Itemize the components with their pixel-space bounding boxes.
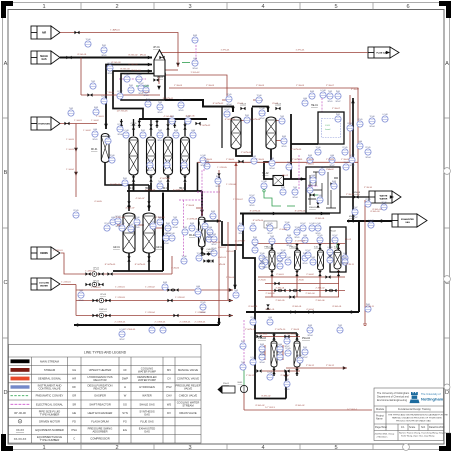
svg-text:PSA-01: PSA-01	[306, 163, 314, 166]
svg-text:WATER PUMP: WATER PUMP	[138, 369, 156, 373]
svg-text:FI-03: FI-03	[308, 325, 312, 327]
instrument tags	[69, 35, 388, 391]
svg-text:1"-DW-01: 1"-DW-01	[85, 271, 95, 273]
svg-text:SP-04: SP-04	[270, 168, 275, 170]
svg-text:TYPE-NUMBER: TYPE-NUMBER	[40, 438, 60, 442]
svg-text:CHV-02: CHV-02	[206, 260, 214, 262]
red stream lines	[60, 33, 372, 411]
svg-text:DEMIN: DEMIN	[40, 253, 48, 255]
svg-text:XX-XX-XX: XX-XX-XX	[14, 437, 27, 441]
svg-text:REACTOR: REACTOR	[93, 378, 106, 382]
shift feed jumper	[252, 107, 268, 113]
svg-text:LI-04: LI-04	[205, 161, 209, 163]
svg-text:8"-EG-01: 8"-EG-01	[248, 306, 258, 308]
svg-text:TC-06: TC-06	[285, 336, 290, 338]
shift reactor SR-01	[231, 117, 241, 149]
svg-text:TC-06: TC-06	[295, 227, 300, 229]
svg-text:4"-SYN-03: 4"-SYN-03	[173, 190, 184, 192]
svg-text:FC-07: FC-07	[298, 355, 303, 357]
svg-text:8"-EG-02: 8"-EG-02	[255, 405, 265, 407]
svg-text:8"-SYN-01: 8"-SYN-01	[163, 98, 174, 100]
svg-text:2"-W-12: 2"-W-12	[306, 365, 315, 367]
svg-text:TC-06: TC-06	[370, 116, 375, 118]
svg-text:FD-02: FD-02	[330, 231, 337, 233]
svg-text:A: A	[4, 61, 8, 67]
upper psa drops	[272, 270, 339, 277]
svg-text:SP-07: SP-07	[303, 357, 308, 359]
svg-text:MV-09: MV-09	[349, 216, 356, 218]
svg-text:PI-01: PI-01	[285, 379, 289, 381]
svg-text:3: 3	[188, 4, 191, 10]
svg-text:HR-03: HR-03	[162, 188, 169, 190]
reactor HR-04	[181, 137, 190, 175]
svg-text:SP-01: SP-01	[179, 110, 184, 112]
svg-text:HE-01: HE-01	[311, 104, 318, 107]
svg-text:LI-04: LI-04	[330, 155, 334, 157]
compressor label box	[264, 221, 277, 228]
svg-text:PI-01: PI-01	[303, 253, 307, 255]
svg-text:PC-05: PC-05	[104, 223, 109, 225]
svg-text:SP-04: SP-04	[193, 68, 198, 70]
svg-text:1"-W-01: 1"-W-01	[106, 92, 115, 94]
svg-text:5: 5	[334, 4, 337, 10]
svg-text:FI-03: FI-03	[174, 130, 178, 132]
svg-text:2"-EG-06: 2"-EG-06	[315, 300, 325, 302]
svg-text:4"-SG-07: 4"-SG-07	[125, 208, 135, 210]
HE vertical line	[352, 98, 354, 221]
svg-text:LC-08: LC-08	[120, 223, 125, 225]
svg-text:Level: Level	[325, 129, 331, 131]
svg-text:TC-06: TC-06	[197, 253, 202, 255]
svg-text:FI-03: FI-03	[260, 344, 264, 346]
svg-text:FC-07: FC-07	[348, 123, 353, 125]
svg-text:GASIFER: GASIFER	[94, 394, 106, 398]
svg-text:TC-06: TC-06	[135, 217, 140, 219]
svg-text:WASTE: WASTE	[380, 195, 388, 198]
svg-text:LC-08: LC-08	[151, 221, 156, 223]
svg-text:FC-07: FC-07	[306, 250, 311, 252]
svg-text:2 Members: 2 Members	[377, 436, 389, 439]
svg-text:FLASH DRUM: FLASH DRUM	[91, 420, 109, 424]
svg-text:TC-06: TC-06	[137, 74, 142, 76]
svg-text:TI-02: TI-02	[280, 116, 284, 118]
svg-text:MV-01: MV-01	[140, 55, 147, 57]
svg-text:1"-W-05: 1"-W-05	[341, 159, 350, 161]
lower bank riser	[285, 371, 287, 399]
svg-text:GAS: GAS	[405, 221, 410, 224]
reactor riser R2	[150, 119, 152, 136]
svg-text:1"-W-02: 1"-W-02	[142, 92, 151, 94]
svg-text:2019/20 MDL Group: 2019/20 MDL Group	[375, 433, 396, 436]
svg-text:TI-02: TI-02	[338, 325, 342, 327]
svg-text:TI-02: TI-02	[183, 227, 187, 229]
svg-text:WATER PUMP: WATER PUMP	[138, 378, 156, 382]
svg-text:PC-05: PC-05	[250, 317, 255, 319]
svg-text:8"-SG-03: 8"-SG-03	[128, 64, 138, 66]
svg-text:2"-SYN-08: 2"-SYN-08	[187, 219, 198, 221]
svg-text:SP-07: SP-07	[216, 186, 221, 188]
pneumatic signal lines (green)	[136, 63, 337, 386]
svg-text:COOLING: COOLING	[39, 283, 50, 285]
svg-text:1"-W-12: 1"-W-12	[246, 375, 255, 377]
svg-text:HEAT EXCHANGER: HEAT EXCHANGER	[88, 411, 113, 415]
svg-text:LI-04: LI-04	[196, 286, 200, 288]
binder holes	[444, 168, 451, 175]
svg-text:1"-CW-02: 1"-CW-02	[175, 297, 185, 299]
svg-text:SP-04: SP-04	[173, 227, 178, 229]
flash outlet riser	[222, 221, 243, 245]
svg-text:PC-05: PC-05	[73, 210, 78, 212]
svg-text:SP-01: SP-01	[79, 300, 84, 302]
svg-text:1"-W-03: 1"-W-03	[206, 85, 215, 87]
svg-text:6: 6	[406, 4, 409, 10]
svg-text:TC-06: TC-06	[316, 147, 321, 149]
svg-text:TI-02: TI-02	[158, 181, 162, 183]
svg-text:LI-04: LI-04	[278, 344, 282, 346]
svg-text:LI-04: LI-04	[251, 223, 255, 225]
svg-text:FC-07: FC-07	[250, 195, 255, 197]
svg-text:FI-03: FI-03	[239, 223, 243, 225]
svg-text:FI-03: FI-03	[163, 282, 167, 284]
svg-text:2"-EG-04: 2"-EG-04	[305, 293, 315, 295]
svg-text:PI-01: PI-01	[336, 114, 340, 116]
svg-text:8"-SYN-05: 8"-SYN-05	[105, 264, 116, 266]
legend swatches	[11, 359, 30, 440]
EG main line	[246, 311, 359, 313]
svg-text:SP-04: SP-04	[293, 197, 298, 199]
svg-text:SP-04: SP-04	[201, 165, 206, 167]
svg-text:DWP: DWP	[122, 377, 128, 381]
svg-text:TI-02: TI-02	[79, 290, 83, 292]
svg-text:3: 3	[188, 445, 191, 451]
svg-text:4"-SG-07: 4"-SG-07	[135, 198, 145, 200]
waste vertical	[358, 221, 360, 312]
svg-text:4"-SG-08: 4"-SG-08	[115, 217, 125, 219]
EXHAUSTED GAS feed/outlet arrow	[392, 214, 427, 227]
reactor drop R3	[167, 175, 169, 183]
svg-text:GR-02: GR-02	[156, 247, 163, 249]
svg-text:2"-W-10: 2"-W-10	[346, 194, 355, 196]
svg-text:8"-SG-04: 8"-SG-04	[120, 68, 130, 70]
svg-text:FC-07: FC-07	[350, 155, 355, 157]
svg-text:SP-01: SP-01	[263, 267, 268, 269]
svg-text:TI-02: TI-02	[311, 257, 315, 259]
svg-text:FC-07: FC-07	[225, 109, 230, 111]
svg-text:FC-07: FC-07	[118, 91, 123, 93]
svg-text:1"-H-03: 1"-H-03	[66, 139, 74, 141]
SHALE GAS feed/outlet arrow	[31, 51, 60, 64]
svg-text:1"-W-05: 1"-W-05	[204, 159, 213, 161]
svg-text:UH-01: UH-01	[153, 47, 160, 49]
reactor feed header	[139, 118, 207, 120]
svg-text:FD: FD	[72, 420, 76, 424]
motor M-01	[240, 385, 247, 392]
shift bypass stub	[221, 107, 223, 148]
svg-text:8"-EG-01: 8"-EG-01	[265, 309, 275, 311]
svg-text:PI-01: PI-01	[207, 234, 211, 236]
svg-text:TI-02: TI-02	[212, 234, 216, 236]
svg-text:MV-08: MV-08	[354, 192, 361, 194]
svg-text:M-01: M-01	[238, 382, 244, 384]
svg-text:2"-W-07: 2"-W-07	[332, 108, 341, 110]
svg-text:SR: SR	[72, 402, 76, 406]
svg-text:CF: CF	[123, 368, 127, 372]
svg-text:FC-07: FC-07	[118, 124, 123, 126]
condensate return header	[74, 318, 219, 325]
desulfurization reactor DF-01	[101, 134, 109, 163]
svg-text:SP-01: SP-01	[250, 205, 255, 207]
reactor drop R4	[184, 175, 186, 183]
svg-text:1"-CW-03: 1"-CW-03	[195, 312, 205, 314]
svg-text:4"-SG-09: 4"-SG-09	[155, 217, 165, 219]
svg-text:LC-08: LC-08	[124, 130, 129, 132]
svg-text:1"-H-04: 1"-H-04	[66, 169, 74, 171]
svg-text:The University of: The University of	[421, 392, 441, 396]
svg-text:PSA-01: PSA-01	[264, 246, 272, 249]
equipment labels	[93, 77, 361, 385]
svg-text:1"-CW-03: 1"-CW-03	[115, 297, 125, 299]
svg-text:1"-W-03: 1"-W-03	[174, 85, 183, 87]
svg-text:8"-SG-04: 8"-SG-04	[131, 70, 141, 72]
svg-text:1"-W-06: 1"-W-06	[226, 277, 235, 279]
svg-text:SP-07: SP-07	[260, 118, 265, 120]
svg-text:2"-EG-05: 2"-EG-05	[275, 300, 285, 302]
svg-text:PI-01: PI-01	[141, 130, 145, 132]
svg-text:8"-SG-01: 8"-SG-01	[77, 54, 87, 56]
svg-text:CONTROL VALVE: CONTROL VALVE	[38, 387, 60, 391]
svg-text:MANUAL VALVE: MANUAL VALVE	[178, 368, 198, 372]
red up arrow	[234, 162, 237, 166]
svg-text:LC-08: LC-08	[170, 233, 175, 235]
svg-text:SP-01: SP-01	[282, 146, 287, 148]
svg-text:LC-08: LC-08	[102, 96, 107, 98]
svg-text:SP-04: SP-04	[328, 257, 333, 259]
svg-text:FC-07: FC-07	[333, 235, 338, 237]
svg-text:Module: Module	[376, 408, 385, 411]
PSA column 1	[269, 250, 275, 270]
svg-text:PC-05: PC-05	[365, 199, 370, 201]
svg-text:PC-05: PC-05	[262, 257, 267, 259]
svg-text:PSA-03: PSA-03	[258, 337, 267, 340]
svg-text:4"-SYN-02: 4"-SYN-02	[200, 125, 211, 127]
svg-text:TI-02: TI-02	[158, 102, 162, 104]
svg-text:LI-04: LI-04	[260, 261, 264, 263]
svg-text:LI-04: LI-04	[268, 317, 272, 319]
svg-text:1C"-W-13: 1C"-W-13	[265, 407, 275, 409]
svg-text:2"-SYN-07: 2"-SYN-07	[295, 240, 306, 242]
reactor HR-02	[147, 137, 156, 175]
svg-text:2"-W-10: 2"-W-10	[364, 187, 373, 189]
svg-text:PI-01: PI-01	[166, 223, 170, 225]
svg-text:1"-H-02: 1"-H-02	[91, 120, 99, 122]
flow arrowheads	[74, 51, 394, 377]
svg-text:1"-CW-05: 1"-CW-05	[217, 167, 227, 169]
svg-text:SP-07: SP-07	[212, 244, 217, 246]
left spine	[243, 214, 255, 313]
svg-text:1"-CW-02: 1"-CW-02	[145, 287, 155, 289]
svg-text:SP-07: SP-07	[120, 339, 125, 341]
svg-text:SP-07: SP-07	[350, 165, 355, 167]
svg-text:EG: EG	[123, 428, 127, 432]
svg-text:LC-08: LC-08	[286, 257, 291, 259]
svg-text:PRODUCTION FROM SHALE GAS: PRODUCTION FROM SHALE GAS	[396, 420, 431, 423]
svg-text:PC-05: PC-05	[267, 223, 272, 225]
svg-text:PC-05: PC-05	[317, 235, 322, 237]
svg-text:2"-H-01: 2"-H-01	[276, 274, 284, 276]
svg-text:PSA-04: PSA-04	[302, 337, 311, 340]
svg-text:8"-SG-03: 8"-SG-03	[111, 62, 121, 64]
svg-text:CV-03: CV-03	[240, 104, 247, 106]
svg-text:LI-04: LI-04	[358, 141, 362, 143]
svg-text:Names: Haoran Zhang, Yuanchong: Names: Haoran Zhang, Yuanchong Wang, Xin…	[399, 432, 452, 435]
svg-text:00"-00-00: 00"-00-00	[14, 411, 26, 415]
svg-text:PI-01: PI-01	[129, 85, 133, 87]
svg-text:TC-06: TC-06	[281, 250, 286, 252]
svg-text:CP-03: CP-03	[100, 294, 107, 296]
svg-text:CV: CV	[167, 377, 171, 381]
svg-text:MV-02: MV-02	[157, 77, 164, 79]
svg-text:2"-SYN-05: 2"-SYN-05	[291, 149, 302, 151]
svg-text:SP-07: SP-07	[285, 346, 290, 348]
svg-text:4"-SG-06: 4"-SG-06	[185, 116, 195, 118]
svg-text:CP-01: CP-01	[93, 268, 100, 270]
svg-text:FI-03: FI-03	[94, 107, 98, 109]
svg-text:1"-CW-01: 1"-CW-01	[61, 281, 71, 283]
svg-text:EXHAUSTED: EXHAUSTED	[401, 218, 414, 221]
svg-text:SP-04: SP-04	[370, 126, 375, 128]
svg-text:8"-SYN-05: 8"-SYN-05	[135, 264, 146, 266]
svg-text:4: 4	[261, 4, 264, 10]
legend table	[9, 345, 202, 444]
svg-text:1"-DW-01: 1"-DW-01	[53, 250, 63, 252]
svg-text:4"-H-04: 4"-H-04	[306, 309, 314, 311]
svg-text:D: D	[445, 390, 449, 396]
svg-text:TC-06: TC-06	[86, 39, 91, 41]
svg-text:PSV: PSV	[166, 385, 172, 389]
reactor bottom header	[127, 183, 202, 191]
svg-text:SP-01: SP-01	[102, 55, 107, 57]
svg-text:MAIN STREAM: MAIN STREAM	[40, 359, 59, 363]
svg-text:FC-07: FC-07	[278, 253, 283, 255]
svg-text:LC-08: LC-08	[316, 223, 321, 225]
reactor HR-01	[129, 137, 138, 175]
svg-text:WATER: WATER	[380, 198, 388, 201]
svg-text:LI-04: LI-04	[303, 235, 307, 237]
svg-text:1"-W-05: 1"-W-05	[326, 159, 335, 161]
svg-text:LI-04: LI-04	[208, 227, 212, 229]
svg-text:2"-EG-02: 2"-EG-02	[315, 288, 325, 290]
gasifier GR-01	[123, 213, 135, 253]
heater feed line 3	[113, 71, 152, 119]
svg-text:GAS: GAS	[42, 58, 47, 61]
svg-text:1"-W-03: 1"-W-03	[296, 85, 305, 87]
svg-text:FI-03: FI-03	[287, 235, 291, 237]
svg-text:Fundamental Design Training: Fundamental Design Training	[398, 408, 431, 411]
svg-text:4"-SYN-04: 4"-SYN-04	[110, 184, 121, 186]
svg-text:SP-01: SP-01	[135, 227, 140, 229]
svg-text:C: C	[73, 437, 75, 441]
svg-text:2"-W-08: 2"-W-08	[186, 205, 195, 207]
svg-text:1"-W-05: 1"-W-05	[256, 159, 265, 161]
svg-text:4: 4	[261, 445, 264, 451]
upshot heater firebox	[121, 74, 165, 101]
AIR feed/outlet arrow	[31, 26, 60, 39]
svg-text:PC-05: PC-05	[147, 160, 152, 162]
svg-text:STREAM: STREAM	[182, 404, 194, 408]
svg-text:HE: HE	[72, 411, 76, 415]
svg-text:DW-01: DW-01	[309, 207, 317, 209]
PSA column 2	[295, 250, 301, 270]
svg-text:SP-01: SP-01	[93, 139, 98, 141]
svg-text:FI-03: FI-03	[216, 176, 220, 178]
flash drum FD-01	[199, 217, 206, 247]
svg-text:TC-06: TC-06	[182, 256, 187, 258]
svg-text:TI-02: TI-02	[270, 236, 274, 238]
svg-text:1"-W-11: 1"-W-11	[366, 306, 375, 308]
svg-text:STREAM: STREAM	[44, 368, 56, 372]
svg-text:MV: MV	[167, 368, 171, 372]
svg-text:TI-02: TI-02	[173, 217, 177, 219]
svg-text:PARTIAL OXIDATION PROCESS OF H: PARTIAL OXIDATION PROCESS OF HYDROGEN	[392, 417, 442, 420]
svg-text:1"-H-01: 1"-H-01	[96, 116, 104, 118]
svg-text:1"-CW-06: 1"-CW-06	[226, 184, 236, 186]
svg-text:8"-EG-01: 8"-EG-01	[332, 306, 342, 308]
svg-text:PSA-02: PSA-02	[289, 246, 297, 249]
svg-text:WATER: WATER	[142, 394, 151, 398]
shift transfer line	[236, 108, 252, 157]
svg-text:4"-SYN-04: 4"-SYN-04	[225, 119, 236, 121]
svg-text:TC-06: TC-06	[260, 253, 265, 255]
svg-text:LI-04: LI-04	[111, 217, 115, 219]
svg-text:8"-EG-03: 8"-EG-03	[372, 209, 382, 211]
svg-text:LC-08: LC-08	[268, 372, 273, 374]
svg-text:2"-CWS-01: 2"-CWS-01	[125, 329, 137, 331]
reactor riser R3	[167, 119, 169, 136]
syn gas line from heater	[165, 100, 233, 112]
svg-text:SP-01: SP-01	[116, 226, 121, 228]
title block	[374, 388, 444, 441]
svg-text:SP-01: SP-01	[260, 354, 265, 356]
svg-text:LC-08: LC-08	[144, 85, 149, 87]
svg-text:GENERAL SIGNAL: GENERAL SIGNAL	[38, 377, 62, 381]
svg-text:SP-07: SP-07	[208, 237, 213, 239]
svg-text:FG: FG	[123, 420, 127, 424]
svg-text:1"-CW-01: 1"-CW-01	[115, 287, 125, 289]
svg-text:PI-01: PI-01	[281, 187, 285, 189]
svg-text:1: 1	[42, 445, 45, 451]
riser to water line	[197, 162, 199, 191]
svg-text:8"-SYN-02: 8"-SYN-02	[213, 103, 224, 105]
svg-text:TI-02: TI-02	[253, 245, 257, 247]
svg-text:4"-SYN-03: 4"-SYN-03	[145, 190, 156, 192]
svg-text:LINE TYPES AND LEGEND: LINE TYPES AND LEGEND	[84, 350, 127, 354]
svg-text:SP-01: SP-01	[144, 95, 149, 97]
svg-text:FC-07: FC-07	[301, 223, 306, 225]
svg-text:SP-01: SP-01	[285, 389, 290, 391]
flash drum feed drop	[201, 191, 203, 216]
svg-text:2"-CWS-01: 2"-CWS-01	[115, 322, 127, 324]
svg-text:1/1: 1/1	[401, 426, 405, 429]
svg-text:CHV-01: CHV-01	[218, 247, 226, 249]
svg-text:TC-06: TC-06	[285, 222, 290, 224]
svg-text:SP-04: SP-04	[308, 335, 313, 337]
svg-text:LI-04: LI-04	[191, 130, 195, 132]
corner registration marks	[1, 1, 13, 18]
svg-text:1"-AIR-01: 1"-AIR-01	[110, 29, 120, 32]
svg-text:A: A	[445, 61, 449, 67]
svg-text:SP-04: SP-04	[227, 104, 232, 106]
svg-text:Page/Total: Page/Total	[375, 426, 387, 429]
